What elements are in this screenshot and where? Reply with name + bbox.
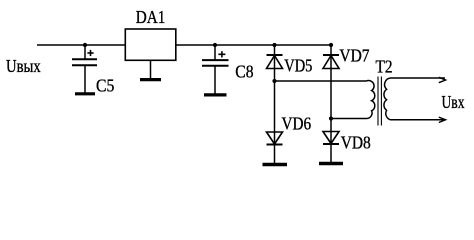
node: junction at C5 top <box>83 43 87 47</box>
svg-text:T2: T2 <box>376 57 393 77</box>
wire: rail to VD7 through VD8 column <box>330 45 332 162</box>
diode VD6 <box>267 132 283 145</box>
node: junction at VD7 cathode on rail <box>329 43 333 47</box>
node: junction at C8 top <box>213 43 217 47</box>
wire: output rail left segment (Uвых to DA1 pin 1) <box>37 44 125 46</box>
ground under VD8 <box>319 162 343 165</box>
arrow: input bottom <box>439 117 446 122</box>
transformer T2 primary winding (left) <box>275 81 375 119</box>
wire: rail to VD5 through VD6 column <box>274 45 276 163</box>
transformer T2 core <box>378 77 381 126</box>
wire: rail segment DA1 pin 2 to VD7 cathode column <box>176 44 331 46</box>
diode VD5 <box>267 55 283 69</box>
diode VD7 <box>323 55 339 69</box>
transformer T2 secondary winding (right) <box>384 78 445 120</box>
diode VD8 <box>323 132 339 145</box>
capacitor C8 <box>202 45 229 94</box>
svg-text:VD7: VD7 <box>339 45 369 65</box>
capacitor C5 <box>72 45 97 93</box>
ground under C5 <box>75 92 95 95</box>
ground under C8 <box>204 93 227 96</box>
ground under VD6 <box>263 163 288 166</box>
svg-text:C5: C5 <box>96 76 114 96</box>
svg-text:VD5: VD5 <box>284 56 312 76</box>
wire: DA1 ground stem <box>150 60 152 78</box>
svg-text:Uвх: Uвх <box>442 92 465 112</box>
node B: junction dot winding tap right <box>329 116 333 120</box>
svg-text:VD8: VD8 <box>341 132 371 152</box>
svg-text:DA1: DA1 <box>136 7 166 27</box>
arrow: input top <box>439 77 446 82</box>
node: junction at VD5 cathode on rail <box>272 43 276 47</box>
svg-text:C8: C8 <box>235 62 253 82</box>
svg-text:Uвых: Uвых <box>6 56 41 76</box>
ground under DA1 <box>140 78 161 81</box>
node A: junction dot winding tap left <box>272 79 276 83</box>
regulator IC DA1 (box body) <box>125 29 176 60</box>
svg-text:VD6: VD6 <box>282 114 312 134</box>
